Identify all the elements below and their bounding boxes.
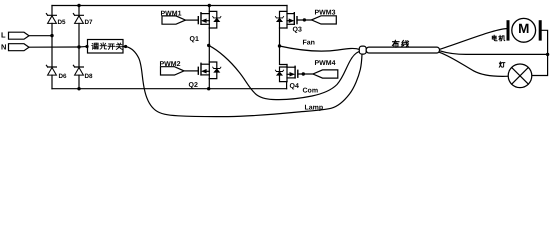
node dimmer left pin (85, 45, 88, 48)
wire Fan (Q3/Q4 midpoint to cable) (280, 46, 360, 51)
node D7 top junction (77, 4, 80, 7)
wire Q4 gate to PWM4 (298, 73, 313, 75)
transistor Q3 (275, 6, 302, 34)
wire N node to dimmer (79, 46, 87, 49)
cable body 布线 (366, 47, 439, 53)
glyph 线 (402, 40, 409, 47)
connector N (1, 43, 29, 52)
node Fan junction (278, 44, 281, 47)
connector PWM1 (161, 10, 186, 24)
bottom rail (52, 88, 287, 90)
glyph 电 (492, 35, 497, 41)
diode D8 (73, 47, 93, 89)
wire common to lamp (531, 54, 548, 75)
transistor Q4 (275, 65, 299, 91)
svg-text:D7: D7 (85, 19, 94, 26)
wire N to bridge (29, 46, 79, 48)
svg-text:D5: D5 (58, 19, 67, 26)
wire lamp feed (cable to lamp) (440, 52, 509, 76)
svg-text:N: N (1, 43, 6, 52)
glyph 开 (108, 44, 115, 49)
glyph 调 (92, 43, 98, 49)
svg-text:L: L (1, 31, 6, 40)
wire Q4 source to rail (286, 82, 288, 89)
label 电机 (492, 35, 504, 41)
wire motor feed (cable to motor) (440, 29, 507, 50)
wire Q3 source jog to Fan node (279, 28, 281, 46)
node L junction (50, 34, 53, 37)
dimmer switch box (88, 40, 124, 54)
wire motor to common (542, 30, 548, 54)
wire common (cable to junction) (440, 51, 548, 55)
svg-text:Q1: Q1 (190, 36, 199, 43)
diode D5 (46, 6, 66, 36)
node D8 bottom junction (77, 87, 80, 90)
node PWM3 wire dot (303, 18, 306, 21)
svg-text:Q4: Q4 (290, 83, 299, 90)
glyph 灯 (499, 62, 505, 67)
connector L (1, 31, 29, 40)
glyph 光 (100, 43, 106, 49)
transistor Q1 (190, 6, 221, 44)
wire Lamp (dimmer to cable) (126, 47, 362, 117)
connector PWM2 (160, 61, 185, 75)
wire dimmer pin stub (123, 46, 126, 48)
wire Q3 gate to PWM3 (297, 19, 312, 21)
wire PWM2 to Q2 gate (184, 70, 198, 72)
svg-text:PWM4: PWM4 (315, 60, 336, 67)
node common junction (546, 53, 549, 56)
node Q1/Q2 midpoint (207, 44, 210, 47)
cable ferrule (359, 46, 366, 54)
node Q1 drain junction (208, 4, 211, 7)
wire Q1 source to midpoint (208, 28, 210, 45)
label 灯 (499, 62, 505, 67)
wire Com (Q1/Q2 midpoint to cable) (209, 45, 360, 99)
glyph 布 (392, 40, 399, 47)
lamp X (508, 64, 532, 88)
node Q2 source junction (207, 87, 210, 90)
svg-text:Lamp: Lamp (305, 105, 324, 112)
svg-text:Q3: Q3 (293, 27, 302, 34)
motor M (507, 18, 542, 42)
wire L to bridge (29, 35, 52, 37)
glyph 关 (116, 43, 123, 49)
transistor Q2 (189, 45, 221, 89)
svg-text:D8: D8 (85, 73, 94, 80)
svg-text:M: M (518, 21, 529, 36)
node N junction (77, 45, 80, 48)
label 布线 (392, 40, 408, 47)
svg-text:Fan: Fan (303, 40, 315, 47)
wire PWM1 to Q1 gate (186, 19, 199, 21)
connector PWM4 (313, 60, 338, 78)
diode D6 (46, 36, 67, 89)
svg-text:D6: D6 (59, 73, 68, 80)
wire Q2 source to rail (208, 79, 210, 89)
node dimmer right pin (124, 45, 127, 48)
svg-text:Q2: Q2 (189, 82, 198, 89)
connector PWM3 (312, 9, 337, 24)
top rail (52, 5, 287, 7)
diode D7 (73, 6, 93, 48)
glyph 机 (499, 35, 505, 41)
svg-text:Com: Com (303, 88, 319, 95)
wire Fan node to Q4 drain (280, 46, 288, 67)
node PWM4 wire dot (302, 72, 305, 75)
